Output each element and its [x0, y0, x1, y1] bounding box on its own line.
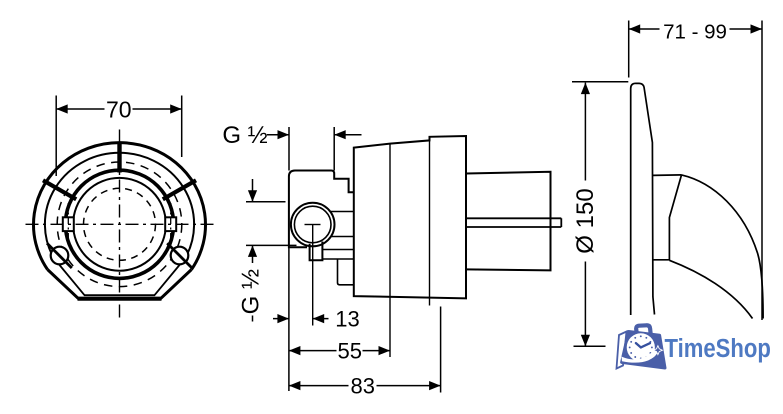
ring inner circle	[73, 178, 166, 271]
svg-text:55: 55	[338, 339, 362, 364]
screw lower-right	[171, 247, 189, 265]
handle hub top	[653, 174, 682, 177]
logo flag	[617, 332, 627, 369]
logo clock tick dots	[629, 335, 653, 359]
cap protruding	[466, 172, 551, 271]
block internal line 83	[429, 140, 431, 305]
handle under curve	[669, 260, 752, 318]
outer flat	[78, 297, 162, 301]
spoke upper-right	[163, 180, 196, 199]
handle lever front	[653, 175, 682, 260]
dim 83	[289, 385, 441, 387]
circle center cross dash	[305, 224, 321, 226]
svg-text:G ½: G ½	[222, 122, 267, 149]
stub below circle	[310, 242, 323, 261]
center leader from circle	[312, 225, 314, 326]
dim dia150 line	[584, 83, 586, 347]
second circle chamfers	[54, 258, 186, 295]
dim G1/2 left vertical: ext lines	[246, 202, 297, 246]
svg-text:13: 13	[335, 307, 359, 332]
neck lines	[331, 212, 354, 237]
spoke top	[117, 142, 121, 173]
spindle	[466, 218, 561, 227]
svg-text:83: 83	[351, 374, 375, 399]
bracket outline	[289, 171, 354, 248]
escutcheon plate profile	[631, 83, 655, 315]
dim 13	[273, 318, 329, 320]
svg-text:Ø 150: Ø 150	[572, 188, 599, 253]
logo comet	[650, 347, 664, 363]
svg-text:70: 70	[106, 96, 132, 122]
svg-text:TimeShop: TimeShop	[665, 334, 771, 363]
cartridge circle outer	[291, 203, 335, 247]
logo bag body	[622, 332, 665, 369]
logo clock hands	[636, 343, 650, 347]
outer circle arc	[34, 143, 206, 270]
inner flat	[84, 294, 155, 296]
dim G1/2 top arrows	[267, 134, 289, 136]
block internal line 55	[389, 144, 391, 357]
outer chamfers	[48, 270, 192, 299]
dashed bolt circle	[57, 162, 182, 287]
plate top ext line	[572, 81, 628, 83]
lower tab	[338, 259, 354, 285]
nub right	[165, 217, 176, 231]
handle outer curve	[682, 175, 764, 319]
ring outer circle	[65, 170, 173, 278]
dim 55	[289, 350, 390, 352]
spoke upper-left	[43, 180, 76, 199]
dim 71-99	[629, 28, 762, 30]
nub left	[63, 217, 74, 231]
logo bag handle	[636, 325, 650, 333]
shelf lines	[322, 250, 353, 260]
cartridge circle inner	[294, 206, 331, 243]
svg-text:G ½: G ½	[238, 269, 265, 314]
centerline vertical	[119, 130, 121, 322]
screw lower-left	[51, 247, 69, 265]
logo swoosh	[622, 350, 659, 363]
svg-text:71 - 99: 71 - 99	[663, 21, 727, 44]
dim 71-99 ext lines	[629, 21, 762, 321]
main block outline	[354, 136, 466, 298]
nub centerline right	[170, 203, 172, 246]
dashed inner circle	[84, 188, 156, 260]
dim 70 line	[56, 108, 182, 110]
logo star	[653, 346, 662, 355]
dim G1/2 top ext lines	[289, 127, 334, 171]
centerline horizontal	[26, 223, 215, 225]
dim 83 right ext	[440, 307, 442, 393]
left shared extension line	[288, 247, 290, 391]
second circle arc	[45, 153, 194, 258]
dim 70 extension lines	[55, 96, 57, 177]
dim G1/2 left vertical arrows	[252, 179, 254, 322]
nub centerline left	[67, 203, 69, 246]
dim dia150 bottom ext	[574, 345, 606, 347]
logo clock face	[627, 333, 655, 361]
